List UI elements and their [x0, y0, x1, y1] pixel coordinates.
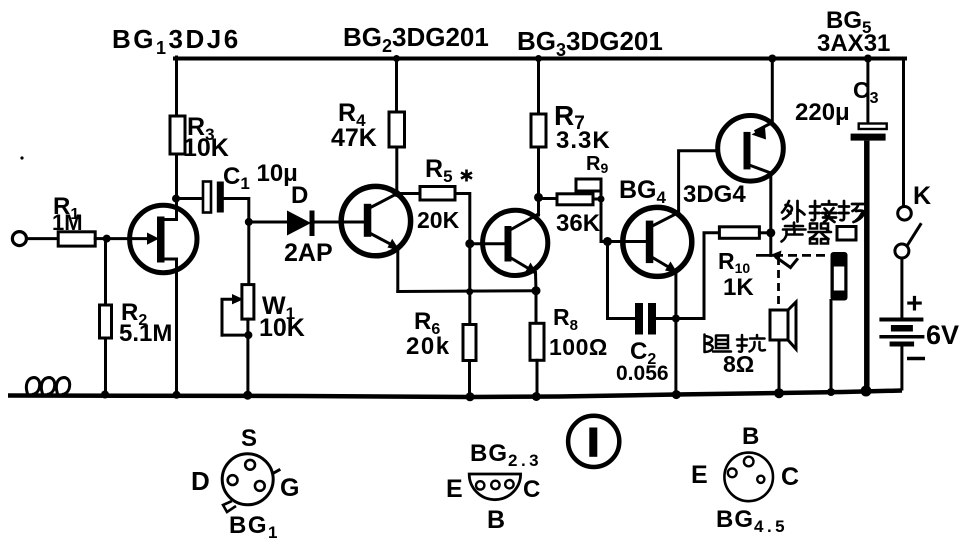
switch K lever	[908, 225, 921, 246]
node D junction R5/BG3 base	[465, 239, 474, 248]
resistor R9	[557, 194, 593, 205]
svg-text:G: G	[280, 474, 299, 502]
wire node B up to R3	[175, 154, 178, 199]
wire R7 down to BG3 collector	[537, 147, 540, 215]
BG4 base bar	[646, 221, 654, 264]
wire R1 to node A	[95, 237, 107, 240]
figure number 1 circled	[568, 416, 619, 467]
wire C1 to node C and down to W1	[224, 199, 249, 285]
BG1 source lead to ground	[164, 259, 177, 395]
junction W1 ground	[243, 391, 252, 400]
wire BG2 emitter down	[396, 248, 399, 292]
BG5 base bar	[744, 132, 751, 170]
junction source ground	[173, 391, 181, 399]
svg-text:20k: 20k	[406, 333, 451, 360]
switch K lower contact	[895, 244, 909, 258]
svg-text:D: D	[291, 182, 308, 209]
junction emitter/C2-R10 crossing	[672, 315, 680, 323]
svg-text:3.3K: 3.3K	[556, 127, 611, 154]
BG4 collector wire up and to BG5 base	[679, 151, 718, 213]
junction C3 ground	[861, 386, 872, 397]
svg-text:BG23DG201: BG23DG201	[343, 22, 489, 56]
BG1 gate bar	[157, 217, 165, 263]
coil on ground lead	[26, 378, 69, 395]
junction rail R7	[535, 55, 542, 62]
wire BG4 emitter down to ground	[674, 272, 677, 395]
svg-text:E: E	[691, 461, 708, 489]
resistor R2	[100, 305, 112, 338]
wire K to battery	[900, 258, 903, 317]
svg-text:BG13DJ6: BG13DJ6	[112, 24, 241, 58]
pinout BG2.3 pin C	[505, 480, 513, 488]
potentiometer W1 body	[242, 285, 254, 320]
svg-text:220μ: 220μ	[795, 99, 850, 126]
wire rail to R7	[537, 59, 540, 115]
node A junction	[103, 235, 111, 243]
resistor R3	[170, 116, 185, 154]
svg-text:100Ω: 100Ω	[549, 334, 608, 360]
junction BG3 emitter / R8	[532, 286, 541, 295]
svg-text:5.1M: 5.1M	[119, 320, 172, 347]
pinout BG2.3 pin B	[491, 481, 499, 489]
pinout BG1 pin D	[228, 475, 238, 485]
pinout BG2.3 pin E	[476, 481, 484, 489]
wire C3 to ground	[864, 141, 870, 391]
wire emitter feedback line	[398, 289, 536, 293]
resistor R1	[58, 232, 95, 246]
svg-text:1K: 1K	[723, 274, 754, 301]
W1 wiper arrow and tie	[222, 299, 233, 335]
svg-text:20K: 20K	[417, 207, 460, 233]
svg-text:47K: 47K	[331, 124, 377, 152]
junction rail C3	[864, 55, 872, 63]
svg-text:S: S	[241, 425, 257, 452]
svg-text:E: E	[446, 475, 463, 503]
wire R9 right lead down to BG4 base	[593, 191, 601, 242]
junction BG4 emitter ground	[672, 390, 681, 399]
pinout BG1 pin S	[245, 460, 255, 470]
transistor Q BG5 circle	[718, 116, 784, 182]
capacitor C3 plate-	[851, 134, 886, 141]
svg-text:K: K	[913, 182, 931, 210]
BG4 collector lead	[653, 213, 678, 226]
svg-text:2AP: 2AP	[284, 239, 333, 267]
pinout BG1 G tick	[273, 470, 279, 474]
ground rail	[8, 391, 902, 398]
BG1 drain lead	[164, 199, 177, 220]
junction W1 wiper tie	[244, 331, 252, 339]
wire R8 to ground	[536, 360, 539, 396]
resistor R10	[719, 227, 759, 239]
top +6V rail	[175, 57, 905, 61]
wire input to R1	[27, 237, 59, 240]
wire jack to ground	[830, 301, 833, 393]
node E junction R7/R9/collector	[534, 193, 543, 202]
wire R6 to ground	[468, 361, 471, 398]
speaker	[770, 310, 788, 340]
node R5 branch junction	[393, 190, 400, 197]
junction feedback crossing	[466, 288, 473, 295]
diode D	[287, 211, 311, 236]
label shengqikou (ext speaker line2)	[782, 223, 857, 244]
pinout BG1 package circle	[222, 454, 273, 505]
transistor Q BG3 circle	[483, 210, 548, 275]
BG3 base bar	[505, 226, 512, 262]
svg-text:+: +	[906, 288, 923, 320]
junction R6 ground	[466, 392, 475, 401]
label zukang (impedance)	[705, 335, 766, 353]
junction rail BG5 emitter	[768, 55, 776, 63]
svg-text:3AX31: 3AX31	[817, 30, 890, 57]
BG5 emitter lead with arrow to rail	[756, 59, 772, 132]
svg-text:6V: 6V	[926, 320, 959, 350]
junction jack ground	[827, 388, 835, 396]
BG2 base bar	[364, 204, 372, 237]
BG4 emitter lead with arrow	[653, 258, 671, 269]
dashed wire down to speaker	[777, 257, 780, 310]
pinout BG4.5 pin E	[728, 468, 737, 477]
wire gate into BG1 with arrow	[107, 237, 148, 240]
wire BG3 emitter down to R8	[534, 273, 538, 324]
stray scan dot	[20, 156, 23, 159]
wire BG4 base down to C2	[608, 242, 636, 319]
R9 upper rectangle	[576, 179, 601, 191]
resistor R4	[389, 112, 405, 147]
wire node B to C1	[177, 197, 204, 200]
capacitor C2 plate right	[648, 303, 656, 335]
BG3 collector lead	[511, 214, 538, 230]
junction R8 ground	[532, 392, 541, 401]
capacitor C3 plate+	[859, 124, 887, 130]
resistor R5	[420, 187, 455, 201]
resistor R8	[530, 323, 544, 360]
svg-text:BG33DG201: BG33DG201	[517, 26, 663, 60]
resistor R6	[463, 325, 476, 361]
svg-text:8Ω: 8Ω	[723, 351, 754, 377]
junction R9 lead	[598, 196, 605, 203]
dashed wire to external speaker jack	[756, 254, 783, 257]
pinout BG4.5 pin B	[744, 457, 754, 467]
switch K upper contact	[898, 207, 912, 221]
node B junction drain/R3/C1	[172, 195, 180, 203]
transistor Q BG1 circle	[130, 205, 197, 272]
wire rail to C3	[866, 59, 869, 124]
pinout BG1 pin G	[255, 481, 265, 491]
svg-text:10K: 10K	[183, 134, 229, 162]
svg-text:C: C	[781, 463, 799, 491]
junction R10 / BG5 collector	[766, 228, 775, 237]
BG5 collector lead down	[751, 166, 771, 256]
pinout BG1 tab	[223, 501, 236, 512]
input terminal	[12, 232, 26, 246]
pinout BG2.3 package half-circle	[469, 474, 520, 500]
capacitor C1 plate-	[217, 182, 224, 213]
svg-text:1M: 1M	[52, 210, 83, 235]
wire R10 right lead	[759, 231, 770, 234]
junction R2 ground	[101, 391, 109, 399]
wire R2 to ground	[104, 338, 107, 395]
wire R5 right lead down to R6	[455, 194, 470, 325]
wire right rail down to switch K	[902, 59, 905, 207]
wire R9 left lead	[539, 197, 558, 200]
plug arrow symbol	[777, 258, 798, 268]
svg-text:0.056: 0.056	[616, 362, 669, 385]
capacitor C2 plate left	[635, 303, 643, 335]
wire diode to BG2 base	[315, 221, 364, 224]
junction speaker ground	[774, 388, 784, 398]
node C junction	[245, 218, 253, 226]
junction rail R4	[393, 55, 400, 62]
pinout BG4.5 pin C	[757, 476, 764, 483]
pinout BG4.5 package circle	[724, 453, 773, 502]
wire C2 right to R10 left lead	[656, 233, 719, 319]
wire R4 to BG2 collector	[395, 147, 398, 195]
wire node C to diode	[249, 221, 288, 224]
BG3 emitter lead with arrow	[511, 258, 531, 270]
wire BG3 base	[470, 242, 505, 245]
BG2 emitter lead with arrow	[371, 234, 395, 247]
wire W1 to ground	[246, 319, 249, 395]
wire R5 left lead	[397, 192, 420, 195]
resistor R7	[531, 114, 546, 147]
wire BG4 base	[601, 240, 646, 243]
wire speaker to ground	[778, 340, 781, 393]
svg-text:B: B	[742, 423, 759, 450]
battery 6V plates	[879, 318, 923, 322]
label minus	[907, 357, 925, 361]
svg-text:36K: 36K	[556, 210, 601, 237]
svg-text:B: B	[487, 506, 505, 534]
transistor Q BG4 circle	[623, 207, 692, 276]
wire rail to R4	[395, 59, 398, 113]
wire node A down to R2	[104, 239, 107, 305]
svg-text:C: C	[523, 476, 540, 503]
wire R3 to rail corner	[175, 57, 178, 116]
svg-text:10K: 10K	[259, 314, 305, 342]
BG2 collector lead	[371, 194, 397, 208]
transistor Q BG2 circle	[341, 186, 410, 255]
label waijieyang (ext speaker line1)	[782, 201, 866, 222]
wire battery to ground rail	[900, 347, 903, 390]
capacitor C1 plate+	[203, 182, 211, 213]
svg-text:D: D	[191, 466, 210, 496]
svg-text:3DG4: 3DG4	[683, 181, 746, 208]
external speaker jack	[831, 252, 848, 301]
node F junction BG4 base	[603, 237, 612, 246]
